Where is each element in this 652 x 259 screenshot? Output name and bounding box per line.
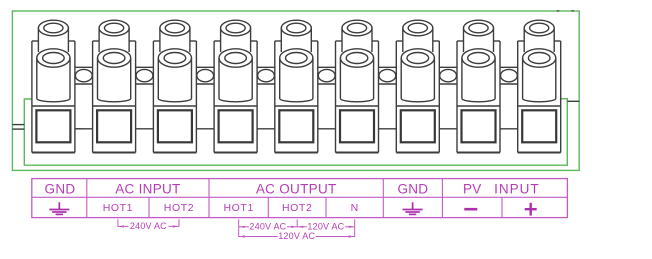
svg-text:HOT1: HOT1 bbox=[223, 202, 253, 214]
svg-text:AC OUTPUT: AC OUTPUT bbox=[256, 181, 337, 196]
svg-text:HOT2: HOT2 bbox=[282, 202, 312, 214]
svg-text:240V AC: 240V AC bbox=[130, 221, 167, 231]
svg-text:HOT1: HOT1 bbox=[103, 202, 133, 214]
svg-text:INPUT: INPUT bbox=[494, 181, 540, 196]
svg-text:120V AC: 120V AC bbox=[307, 221, 344, 231]
svg-text:240V AC: 240V AC bbox=[249, 221, 286, 231]
svg-text:PV: PV bbox=[463, 181, 482, 196]
svg-text:120V AC: 120V AC bbox=[278, 231, 315, 241]
svg-text:AC INPUT: AC INPUT bbox=[115, 181, 180, 196]
svg-text:HOT2: HOT2 bbox=[164, 202, 194, 214]
svg-text:GND: GND bbox=[45, 181, 76, 196]
svg-text:GND: GND bbox=[397, 181, 428, 196]
svg-text:N: N bbox=[351, 202, 359, 214]
